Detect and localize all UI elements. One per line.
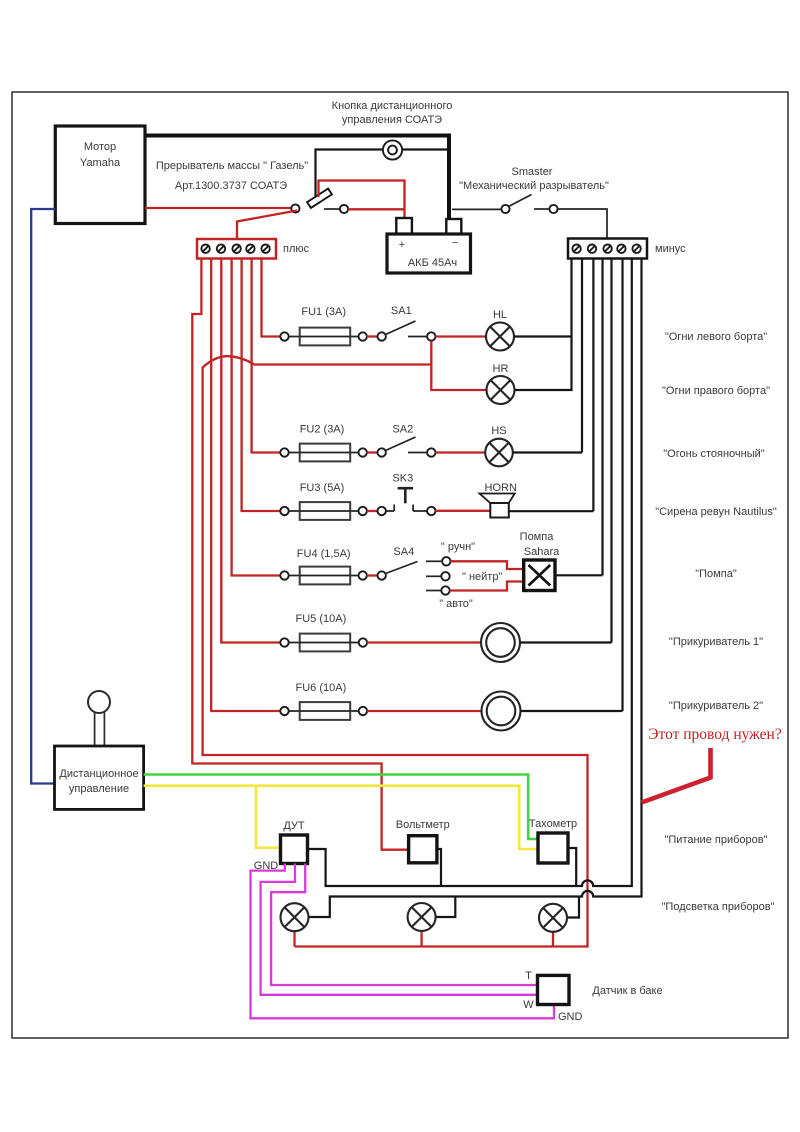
wire: black panel lamp3 riser [567, 897, 579, 918]
wire: black tachometer return drop [568, 848, 576, 886]
wire: motor to mass switch (red) [145, 207, 292, 209]
wire: black voltmeter return drop [437, 849, 441, 886]
svg-text:FU6 (10A): FU6 (10A) [296, 682, 347, 694]
svg-text:"Прикуриватель 2": "Прикуриватель 2" [669, 700, 763, 712]
svg-text:HS: HS [491, 425, 506, 437]
svg-text:Yamaha: Yamaha [80, 157, 121, 169]
annotation pointer line (thick red) [642, 748, 711, 803]
svg-text:SK3: SK3 [392, 473, 413, 485]
fuse FU1 (3A) row [280, 328, 386, 346]
wire: red SA2 to HS lamp [436, 451, 486, 453]
switch SA2 [386, 437, 436, 457]
socket XS2 (Прикуриватель 2) [482, 692, 521, 731]
battery GB1 АКБ 45Ач [387, 218, 471, 273]
panel lamp 1 [281, 903, 309, 931]
switch SA1 [386, 321, 436, 341]
svg-text:SA4: SA4 [393, 546, 414, 558]
motor box M1 "Мотор Yamaha" [55, 126, 145, 224]
wire: red lamp stub 2 [420, 931, 422, 947]
svg-text:Кнопка дистанционного: Кнопка дистанционного [332, 100, 453, 112]
svg-text:Этот провод нужен?: Этот провод нужен? [648, 726, 782, 743]
wire: magenta GND fuel sender [251, 864, 555, 1019]
wire: red FU6 to socket 2 [367, 710, 481, 712]
tank sender box (Датчик в баке) [538, 975, 570, 1004]
svg-text:FU1 (3A): FU1 (3A) [301, 306, 346, 318]
lamp HS [485, 439, 513, 467]
svg-text:GND: GND [558, 1011, 583, 1023]
wire: red SA1 to HL lamp and HR node [431, 337, 486, 391]
svg-text:Арт.1300.3737 СОАТЭ: Арт.1300.3737 СОАТЭ [175, 180, 287, 192]
svg-text:+: + [399, 239, 405, 251]
wire: magenta W fuel sender [261, 864, 538, 995]
svg-text:−: − [452, 237, 458, 249]
wire: black minus bus 7 instruments return (hops red wire) [308, 259, 632, 887]
svg-text:минус: минус [655, 243, 686, 255]
svg-text:FU3 (5A): FU3 (5A) [300, 482, 345, 494]
fuse FU4 (1,5A) row [280, 567, 386, 585]
svg-text:управление: управление [69, 783, 129, 795]
wire: black socket1 return to minus bus 5 [520, 259, 612, 643]
svg-text:АКБ 45Ач: АКБ 45Ач [408, 257, 457, 269]
wire: red bus 6 feeds FU3 [242, 259, 281, 512]
wire: black minus bus 8 panel lamps return (hops red wire) [309, 259, 642, 918]
svg-text:Дистанционное: Дистанционное [59, 768, 138, 780]
svg-text:Тахометр: Тахометр [529, 818, 577, 830]
remote button SB1 (Кнопка дистанционного управления СОАТЭ) [383, 140, 402, 159]
svg-text:Вольтметр: Вольтметр [396, 819, 450, 831]
svg-text:HR: HR [493, 363, 509, 375]
wire: red FU5 to socket 1 [367, 641, 481, 643]
svg-text:"Огни правого борта": "Огни правого борта" [662, 385, 770, 397]
svg-text:Помпа: Помпа [520, 531, 555, 543]
wire: red mass switch to plus bus strip [237, 211, 297, 240]
svg-text:FU2 (3A): FU2 (3A) [300, 424, 345, 436]
svg-text:Датчик в баке: Датчик в баке [592, 985, 662, 997]
svg-text:W: W [523, 999, 534, 1011]
svg-text:"Механический разрыватель": "Механический разрыватель" [459, 180, 609, 192]
minus terminal strip XT2 [568, 239, 647, 259]
label: Помпа Sahara [520, 531, 560, 558]
panel lamp 3 [539, 904, 567, 932]
svg-text:плюс: плюс [283, 243, 310, 255]
lamp HL [486, 323, 514, 351]
wire: red bus 1 (plus to lower feed A) [192, 259, 408, 850]
label: Прерыватель массы Газель [156, 160, 308, 192]
svg-text:HL: HL [493, 309, 507, 321]
wire: red bus 7 feeds FU2 [252, 259, 281, 453]
label: Кнопка дистанционного управления СОАТЭ [332, 100, 453, 126]
svg-text:Smaster: Smaster [512, 166, 553, 178]
pump box "Помпа Sahara" [524, 560, 555, 591]
wire: black pump return to minus bus 4 [555, 259, 603, 576]
wire: remote button line (black) [316, 150, 448, 197]
socket XS1 (Прикуриватель 1) [481, 623, 520, 662]
svg-text:HORN: HORN [485, 482, 517, 494]
svg-text:"Прикуриватель 1": "Прикуриватель 1" [669, 636, 763, 648]
svg-text:"Помпа": "Помпа" [695, 568, 737, 580]
wire: red bus 2 (HR/instruments feed with crossover hump) [203, 356, 588, 946]
fuse FU2 (3A) row [280, 444, 386, 462]
wire: red bus 3 feeds FU6 [211, 259, 280, 712]
horn HA1 [480, 494, 515, 518]
svg-text:"Сирена ревун Nautilus": "Сирена ревун Nautilus" [655, 506, 777, 518]
fuse FU3 (5A) row [280, 502, 386, 520]
remote control box (Дистанционное управление) with joystick [55, 691, 144, 809]
svg-text:FU5 (10A): FU5 (10A) [296, 613, 347, 625]
wire: blue remote control wire [31, 209, 55, 784]
wire: red lamp stub 1 [293, 931, 295, 947]
voltmeter box [409, 836, 437, 863]
svg-text:управления СОАТЭ: управления СОАТЭ [342, 114, 442, 126]
wire: black horn return to minus bus 3 [509, 259, 594, 512]
fuse FU6 (10A) row [280, 702, 367, 720]
svg-text:Мотор: Мотор [84, 141, 116, 153]
svg-text:T: T [525, 970, 532, 982]
svg-text:Прерыватель массы " Газель": Прерыватель массы " Газель" [156, 160, 308, 172]
plus terminal strip XT1 [197, 239, 276, 259]
selector switch SA4 [386, 557, 451, 595]
svg-text:"Огонь стояночный": "Огонь стояночный" [663, 448, 765, 460]
label: Smaster [459, 166, 609, 192]
wire: red lamp stub 3 [552, 932, 554, 947]
wire: motor top to battery minus post (thick black) [145, 136, 449, 219]
tachometer box [538, 833, 568, 863]
svg-text:SA1: SA1 [391, 305, 412, 317]
wire: magenta T fuel sender [271, 864, 537, 986]
breaker switch QS2 Smaster (Механический разрыватель) [452, 195, 607, 239]
lamp HR [487, 376, 515, 404]
svg-text:SA2: SA2 [392, 424, 413, 436]
svg-text:ДУТ: ДУТ [283, 820, 305, 832]
wire: green remote to tachometer [144, 775, 538, 840]
wire: black HS return to minus bus 2 [513, 259, 582, 453]
wire: red battery plus to mass switch [319, 181, 405, 219]
svg-text:FU4 (1,5A): FU4 (1,5A) [297, 548, 351, 560]
wire: red SA4 contacts to pump [450, 561, 524, 590]
wire: red bus 5 feeds FU4 [232, 259, 281, 576]
svg-text:"Питание приборов": "Питание приборов" [664, 834, 767, 846]
wire: black HL return to minus bus 1 [514, 259, 572, 391]
svg-text:Sahara: Sahara [524, 546, 560, 558]
wire: black panel lamp2 riser [436, 897, 456, 918]
svg-text:"Огни левого борта": "Огни левого борта" [665, 331, 767, 343]
wire: red SK3 to horn [436, 510, 491, 512]
wire: black socket2 return to minus bus 6 [521, 259, 623, 712]
fuse FU5 (10A) row [280, 634, 367, 652]
svg-text:" авто": " авто" [439, 598, 473, 610]
wire: yellow remote to fuel gauge and tachometer [144, 786, 538, 849]
wire: red bus 8 feeds FU1 [262, 259, 281, 337]
panel lamp 2 [408, 903, 436, 931]
mass switch QS1 (Прерыватель массы) [291, 189, 348, 213]
push button SK3 [386, 488, 436, 515]
wire: red bus 4 feeds FU5 [221, 259, 280, 643]
fuel gauge box ДУТ [281, 835, 308, 864]
svg-text:"Подсветка приборов": "Подсветка приборов" [662, 901, 775, 913]
svg-text:" ручн": " ручн" [441, 541, 475, 553]
svg-text:" нейтр": " нейтр" [462, 571, 502, 583]
